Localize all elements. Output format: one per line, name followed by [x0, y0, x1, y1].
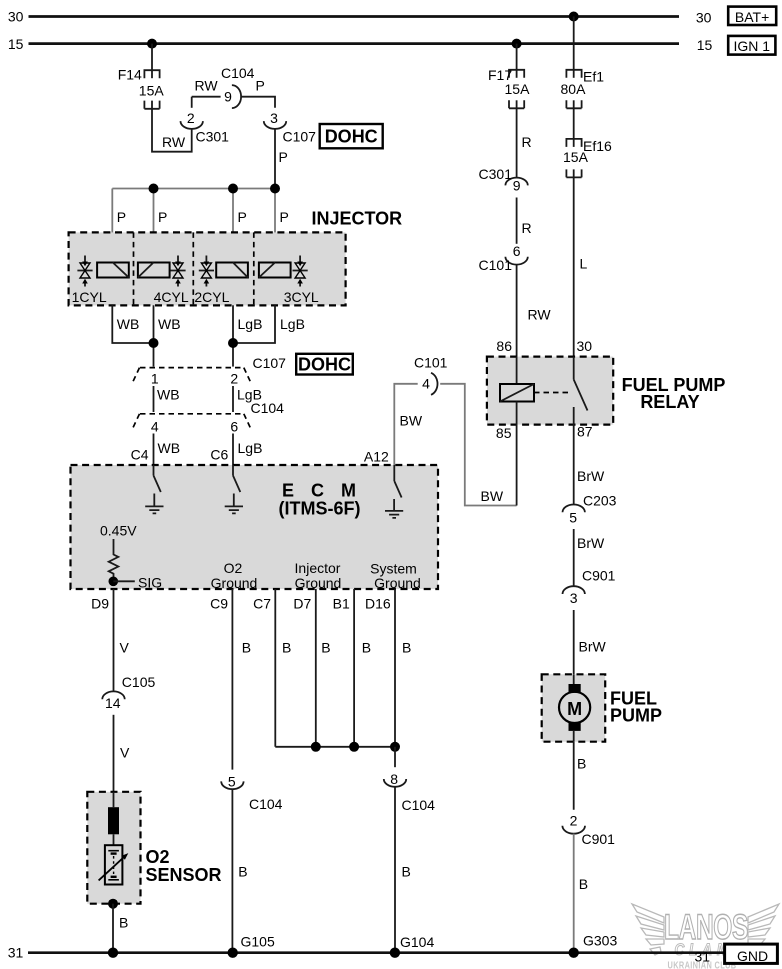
wire ground join bus	[275, 746, 395, 748]
wire 1CYL out to junction	[112, 305, 153, 343]
wire C104-8 to G104	[394, 787, 396, 953]
svg-text:P: P	[117, 209, 126, 225]
junction D7	[311, 742, 321, 752]
label B (pump)	[577, 756, 586, 772]
wire ground bus 31	[28, 951, 725, 954]
svg-text:BW: BW	[481, 488, 504, 504]
connector C104 pin 5	[221, 774, 282, 813]
svg-text:C4: C4	[131, 447, 149, 463]
svg-text:4: 4	[151, 419, 159, 435]
wire C101-6 to relay pin 86	[516, 265, 518, 357]
svg-text:14: 14	[105, 695, 121, 711]
pin C7	[253, 596, 271, 612]
node 30 right label	[696, 10, 712, 26]
wire C107 pin3 down to injector feed bus	[274, 129, 276, 189]
svg-text:R: R	[522, 134, 532, 150]
connector C107 pin 3	[264, 110, 316, 145]
svg-text:(ITMS-6F): (ITMS-6F)	[279, 499, 361, 519]
svg-text:RW: RW	[195, 78, 219, 94]
label O2 Ground	[211, 560, 258, 591]
svg-text:C101: C101	[414, 355, 448, 371]
svg-text:GND: GND	[737, 948, 768, 964]
svg-text:5: 5	[569, 510, 577, 526]
wire ECM A12 up and to C101 pin4	[394, 384, 417, 465]
svg-text:B: B	[321, 640, 330, 656]
label 0.45V	[100, 523, 137, 539]
wire C105 to O2 sensor	[113, 715, 115, 792]
relay coil	[500, 357, 534, 506]
watermark logo	[632, 904, 779, 969]
injector 4CYL valve	[170, 256, 185, 287]
label B (O2)	[119, 915, 128, 931]
pin D9	[91, 596, 109, 612]
svg-text:15: 15	[697, 37, 713, 53]
svg-text:WB: WB	[158, 316, 181, 332]
svg-text:WB: WB	[158, 440, 181, 456]
svg-text:B: B	[402, 864, 411, 880]
junction G105	[228, 948, 238, 958]
connector C301 pin 9	[479, 166, 528, 194]
injector box divider 3	[253, 232, 255, 305]
svg-text:PUMP: PUMP	[610, 706, 662, 726]
relay switch	[574, 357, 588, 505]
svg-text:C104: C104	[402, 797, 436, 813]
svg-text:P: P	[280, 209, 289, 225]
label BrW 3	[579, 639, 607, 655]
svg-text:P: P	[238, 209, 247, 225]
svg-text:C901: C901	[582, 568, 616, 584]
junction feed bus 4CYL	[149, 184, 159, 194]
svg-text:30: 30	[577, 338, 593, 354]
label LgB at C6	[238, 440, 263, 456]
label LgB 2CYL	[238, 316, 263, 332]
svg-text:15A: 15A	[563, 149, 589, 165]
svg-text:C7: C7	[253, 596, 271, 612]
label RW (to C104)	[195, 78, 219, 94]
svg-text:8: 8	[390, 771, 398, 787]
svg-text:L: L	[580, 256, 588, 272]
wire 2CYL out	[232, 305, 234, 366]
label P wire2	[158, 209, 167, 225]
svg-text:G105: G105	[241, 934, 275, 950]
node 15 left label	[8, 36, 24, 52]
node BAT+	[728, 7, 776, 25]
connector C101 pin 6	[479, 243, 528, 273]
svg-text:C901: C901	[582, 831, 616, 847]
label 4CYL	[154, 289, 189, 305]
svg-text:C107: C107	[283, 129, 317, 145]
connector C107 inline	[133, 355, 286, 387]
fuel pump box	[542, 674, 606, 741]
wire line15 to F17	[516, 44, 518, 78]
label DOHC lower	[296, 354, 353, 375]
wire bus 15	[29, 42, 680, 45]
label B (G104 wire)	[402, 864, 411, 880]
svg-text:INJECTOR: INJECTOR	[312, 209, 403, 229]
wire injector drop 1CYL	[111, 189, 113, 306]
wire C107-2 to C104-6	[232, 386, 234, 412]
junction on line 15 at F17	[512, 39, 522, 49]
label P (C104-C107 wire)	[256, 78, 265, 94]
svg-text:B: B	[577, 756, 586, 772]
svg-text:B: B	[362, 640, 371, 656]
svg-text:86: 86	[496, 338, 512, 354]
node IGN 1	[728, 36, 775, 55]
label B (G303 wire)	[579, 876, 588, 892]
node 31 left label	[8, 945, 24, 961]
label B (G105 wire)	[238, 864, 247, 880]
svg-text:B: B	[238, 864, 247, 880]
connector C105 pin 14	[102, 674, 155, 711]
connector C901 pin 2	[562, 813, 615, 848]
pin A12	[364, 449, 389, 465]
svg-text:BrW: BrW	[577, 535, 605, 551]
svg-text:85: 85	[496, 425, 512, 441]
node 31 right label	[695, 948, 711, 964]
ECM box	[71, 465, 439, 589]
node SIG	[109, 575, 163, 591]
wire injector feed bus	[112, 188, 275, 190]
svg-text:C101: C101	[479, 257, 513, 273]
wire C104-5 to G105	[231, 789, 233, 953]
ECM ground switch A12	[385, 465, 403, 518]
fuel pump motor M	[559, 674, 590, 741]
svg-text:9: 9	[224, 89, 232, 105]
connector C104 pin 9	[221, 65, 255, 108]
label LgB mid	[237, 387, 262, 403]
injector box divider 2	[192, 232, 194, 305]
label WB mid	[157, 387, 180, 403]
wire C301 pin2 to C104 pin9	[192, 96, 221, 98]
svg-text:Ef1: Ef1	[583, 69, 604, 85]
svg-text:C107: C107	[253, 355, 287, 371]
label R lower	[522, 220, 532, 236]
label B (C7)	[282, 640, 291, 656]
wire Ef1 to Ef16	[573, 100, 575, 147]
label 2CYL	[194, 289, 229, 305]
svg-text:C105: C105	[122, 674, 156, 690]
label BW bottom	[481, 488, 504, 504]
connector C104 inline	[133, 400, 284, 435]
svg-text:WB: WB	[117, 316, 140, 332]
svg-text:F14: F14	[118, 67, 142, 83]
wire injector drop 3CYL	[274, 189, 276, 306]
wire 3CYL out to junction	[233, 305, 275, 343]
label B (B1)	[362, 640, 371, 656]
label BrW 2	[577, 535, 605, 551]
wire C104 pin9 to C107 pin3	[241, 97, 275, 108]
junction on line 15 at F14	[147, 39, 157, 49]
wire C7 down	[274, 589, 276, 747]
svg-text:B1: B1	[333, 596, 350, 612]
relay link dashed	[534, 392, 570, 394]
svg-text:0.45V: 0.45V	[100, 523, 137, 539]
wire C901-3 to fuel pump	[573, 610, 575, 674]
svg-text:6: 6	[513, 243, 521, 259]
label V upper	[120, 640, 130, 656]
fuse Ef1 80A	[561, 69, 605, 109]
label R upper	[522, 134, 532, 150]
label B (D7)	[321, 640, 330, 656]
svg-text:6: 6	[230, 419, 238, 435]
svg-text:3: 3	[570, 590, 578, 606]
label BrW 1	[577, 468, 605, 484]
injector 3CYL valve	[293, 256, 308, 287]
injector assembly box	[69, 232, 346, 305]
svg-text:C203: C203	[583, 493, 617, 509]
junction G104	[390, 948, 400, 958]
svg-text:M: M	[567, 699, 582, 719]
label Injector Ground	[295, 560, 342, 591]
svg-text:LgB: LgB	[238, 440, 263, 456]
label DOHC top	[320, 124, 383, 148]
svg-text:15A: 15A	[505, 81, 531, 97]
svg-text:15: 15	[8, 36, 24, 52]
svg-text:B: B	[119, 915, 128, 931]
label B (C9)	[242, 640, 251, 656]
wire 4CYL out	[153, 305, 155, 366]
injector 2CYL valve	[199, 256, 214, 287]
svg-text:RW: RW	[162, 134, 186, 150]
label LgB 3CYL	[280, 316, 305, 332]
svg-text:A12: A12	[364, 449, 389, 465]
node G303	[583, 933, 617, 949]
svg-text:V: V	[120, 640, 130, 656]
svg-text:2: 2	[570, 813, 578, 829]
wire injector drop 2CYL	[232, 189, 234, 306]
svg-text:E C M: E C M	[282, 481, 362, 501]
junction D16	[390, 742, 400, 752]
svg-text:LgB: LgB	[280, 316, 305, 332]
label WB 1CYL	[117, 316, 140, 332]
junction B1	[349, 742, 359, 752]
node G104	[400, 934, 434, 950]
wire C901-2 to G303	[573, 834, 575, 953]
wire F17 to C301 pin9	[516, 100, 518, 177]
svg-text:D7: D7	[293, 596, 311, 612]
label WB at C4	[158, 440, 181, 456]
node G105	[241, 934, 275, 950]
svg-text:B: B	[579, 876, 588, 892]
label RW (F14-C301 wire)	[162, 134, 186, 150]
junction feed bus 2CYL	[228, 184, 238, 194]
junction WB wires	[149, 338, 159, 348]
label BW left	[400, 413, 423, 429]
wire C101-4 to relay pin 85	[440, 384, 516, 506]
svg-text:C104: C104	[221, 65, 255, 81]
label E C M	[282, 481, 362, 501]
label WB 4CYL	[158, 316, 181, 332]
svg-text:2: 2	[230, 371, 238, 387]
svg-text:SIG: SIG	[138, 575, 162, 591]
wire O2 sensor to ground bus	[112, 904, 114, 953]
svg-text:P: P	[158, 209, 167, 225]
svg-text:4: 4	[422, 376, 430, 392]
wire C104-4 to ECM C4	[153, 434, 155, 466]
label 3CYL	[284, 289, 319, 305]
pin B1	[333, 596, 350, 612]
svg-text:3: 3	[270, 110, 278, 126]
svg-text:B: B	[242, 640, 251, 656]
svg-text:IGN 1: IGN 1	[734, 38, 771, 54]
svg-text:80A: 80A	[561, 81, 587, 97]
injector 2CYL coil	[216, 263, 248, 278]
svg-text:SENSOR: SENSOR	[146, 865, 222, 885]
svg-text:Ground: Ground	[295, 575, 342, 591]
O2 sensor cell	[99, 845, 129, 884]
connector C901 pin 3	[563, 568, 616, 606]
label V lower	[120, 745, 130, 761]
wire D9 to C105	[113, 589, 115, 692]
label INJECTOR	[312, 209, 403, 229]
label B (D16)	[402, 640, 411, 656]
label P wire1	[117, 209, 126, 225]
wire C104-6 to ECM C6	[232, 434, 234, 466]
label P wire3	[238, 209, 247, 225]
svg-text:O2: O2	[146, 847, 170, 867]
injector 3CYL coil	[259, 263, 291, 278]
wire B1 down	[353, 589, 355, 747]
svg-text:LgB: LgB	[238, 316, 263, 332]
connector C101 pin 4	[414, 355, 448, 395]
svg-text:C104: C104	[249, 796, 283, 812]
svg-text:G303: G303	[583, 933, 617, 949]
wire Ef16 to relay pin 30	[573, 169, 575, 356]
injector 1CYL valve	[77, 256, 92, 287]
svg-text:BrW: BrW	[577, 468, 605, 484]
svg-text:2CYL: 2CYL	[194, 289, 229, 305]
label (ITMS-6F)	[279, 499, 361, 519]
svg-text:31: 31	[8, 945, 24, 961]
junction feed bus 3CYL	[270, 184, 280, 194]
label O2 SENSOR	[146, 847, 222, 885]
svg-text:C104: C104	[251, 400, 285, 416]
svg-text:R: R	[522, 220, 532, 236]
svg-text:Ground: Ground	[374, 575, 421, 591]
junction O2 sensor bottom	[108, 899, 118, 909]
wire F14 to connector C301 pin2	[152, 101, 192, 152]
svg-text:1: 1	[151, 371, 159, 387]
pin C6	[210, 447, 228, 463]
ECM ground switch C6	[225, 465, 243, 513]
connector C104 pin 8	[384, 771, 435, 813]
svg-text:O2: O2	[224, 560, 243, 576]
label 1CYL	[72, 289, 107, 305]
ECM ground switch C4	[145, 465, 163, 513]
junction on line 30 at Ef1	[569, 12, 579, 22]
svg-text:C6: C6	[210, 447, 228, 463]
svg-text:C301: C301	[479, 166, 513, 182]
svg-text:Injector: Injector	[295, 560, 341, 576]
wire C203-5 to C901-3	[573, 529, 575, 587]
connector C301 pin 2	[181, 97, 230, 145]
svg-text:30: 30	[8, 9, 24, 25]
label FUEL PUMP RELAY	[622, 375, 726, 412]
O2 sensor box	[87, 792, 140, 904]
resistor 0.45V pullup	[109, 539, 119, 581]
wire line30 to Ef1	[573, 17, 575, 78]
wire bus 30	[29, 15, 680, 18]
wire C301-9 to C101-6	[516, 198, 518, 244]
pin 30	[577, 338, 593, 354]
pin 85	[496, 425, 512, 441]
svg-text:DOHC: DOHC	[325, 127, 378, 147]
svg-text:C301: C301	[196, 129, 230, 145]
svg-text:9: 9	[513, 178, 521, 194]
svg-text:15A: 15A	[139, 83, 165, 99]
node 30 left label	[8, 9, 24, 25]
svg-text:P: P	[256, 78, 265, 94]
injector 4CYL coil	[138, 263, 170, 278]
injector 1CYL coil	[97, 263, 129, 278]
svg-text:BAT+: BAT+	[735, 9, 769, 25]
fuel pump relay box	[487, 357, 613, 425]
O2 sensor heater element	[108, 792, 119, 845]
svg-text:RW: RW	[528, 307, 552, 323]
fuse Ef16 15A	[563, 138, 612, 178]
svg-text:D16: D16	[365, 596, 391, 612]
svg-text:31: 31	[695, 948, 711, 964]
svg-text:WB: WB	[157, 387, 180, 403]
label System Ground	[370, 561, 421, 592]
svg-text:D9: D9	[91, 596, 109, 612]
svg-text:V: V	[120, 745, 130, 761]
wire C107-1 to C104-4	[153, 386, 155, 412]
label FUEL PUMP	[610, 689, 662, 726]
svg-text:P: P	[279, 149, 288, 165]
wire C9 down	[231, 589, 233, 770]
wire line15 to F14	[151, 44, 153, 79]
fuse F17 15A	[488, 67, 530, 108]
svg-text:3CYL: 3CYL	[284, 289, 319, 305]
svg-text:4CYL: 4CYL	[154, 289, 189, 305]
svg-text:30: 30	[696, 10, 712, 26]
wire D16 down	[394, 589, 396, 747]
junction LgB wires	[228, 338, 238, 348]
svg-text:C9: C9	[210, 596, 228, 612]
wire fuel pump to C901-2	[573, 742, 575, 810]
pin D16	[365, 596, 391, 612]
pin 86	[496, 338, 512, 354]
pin 87	[577, 424, 593, 440]
svg-text:G104: G104	[400, 934, 434, 950]
label L	[580, 256, 588, 272]
svg-text:BrW: BrW	[579, 639, 607, 655]
connector C203 pin 5	[563, 493, 617, 526]
injector box divider 1	[133, 232, 135, 305]
label RW (relay coil wire)	[528, 307, 552, 323]
pin C4	[131, 447, 149, 463]
svg-text:B: B	[402, 640, 411, 656]
wire injector drop 4CYL	[153, 189, 155, 306]
node 15 right label	[697, 37, 713, 53]
pin D7	[293, 596, 311, 612]
fuse F14 15A	[118, 67, 165, 109]
svg-text:B: B	[282, 640, 291, 656]
svg-text:5: 5	[228, 774, 236, 790]
node GND	[725, 944, 778, 964]
junction G O2	[108, 948, 118, 958]
svg-text:2: 2	[187, 110, 195, 126]
label P (feed wire)	[279, 149, 288, 165]
pin C9	[210, 596, 228, 612]
svg-text:BW: BW	[400, 413, 423, 429]
svg-text:1CYL: 1CYL	[72, 289, 107, 305]
svg-text:87: 87	[577, 424, 593, 440]
label P wire4	[280, 209, 289, 225]
svg-text:Ground: Ground	[211, 575, 258, 591]
junction G303	[569, 948, 579, 958]
